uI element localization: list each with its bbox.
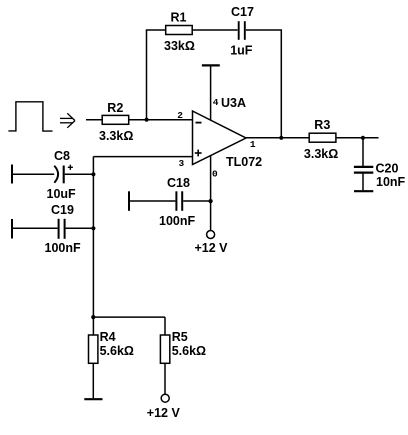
node junction output/feedback [279, 136, 283, 140]
wire C18 to op-amp power column [183, 200, 210, 202]
op-amp minus input marker [196, 122, 202, 124]
svg-text:5.6kΩ: 5.6kΩ [100, 344, 134, 358]
wire feedback right vertical [280, 30, 282, 138]
value 10nF (C20) [376, 175, 406, 189]
wire feedback top to R1 [146, 29, 166, 31]
svg-text:4: 4 [213, 97, 219, 108]
wire R4 to ground [92, 363, 94, 398]
+12V terminal circle (op-amp supply) [207, 231, 215, 239]
node junction at C20 [361, 136, 365, 140]
label C20 [376, 162, 399, 176]
double arrow (signal flow) [60, 113, 75, 128]
wire stub to C18 [129, 200, 175, 202]
plus polarity marker (C8) [68, 165, 73, 170]
label TL072 [226, 155, 262, 169]
resistor R4 [89, 335, 98, 363]
svg-text:R1: R1 [171, 11, 187, 25]
op-amp plus input marker [195, 150, 202, 157]
label U3A [221, 96, 246, 110]
capacitor C8 (polarized) [54, 166, 63, 184]
pin number 1 [250, 139, 256, 150]
wire C17 to feedback right vertical [246, 29, 282, 31]
node junction C18/power column [209, 199, 213, 203]
value 100nF (C18) [159, 214, 195, 228]
wire R2 to op-amp pin 2 [129, 119, 193, 121]
svg-text:2: 2 [177, 110, 183, 121]
capacitor C19 [59, 219, 65, 239]
wire branch down to R5 [164, 317, 166, 335]
value 33kΩ (R1) [164, 39, 195, 53]
wire left column vertical [92, 157, 94, 336]
wire op-amp output [245, 137, 309, 139]
resistor R5 [160, 335, 169, 363]
svg-text:33kΩ: 33kΩ [164, 39, 195, 53]
wire stub to C19 [12, 227, 58, 229]
svg-text:1: 1 [250, 139, 256, 150]
svg-text:+12 V: +12 V [195, 241, 229, 255]
label +12 V (divider) [147, 406, 181, 420]
+12V terminal circle (divider) [161, 394, 169, 402]
wire pin 4 to rail bar [210, 66, 212, 121]
svg-text:3.3kΩ: 3.3kΩ [304, 147, 338, 161]
pin 4 rail bar [202, 64, 220, 66]
pin number 4 [213, 97, 219, 108]
svg-text:10uF: 10uF [47, 187, 77, 201]
label C18 [167, 176, 190, 190]
svg-text:100nF: 100nF [159, 214, 195, 228]
value 100nF (C19) [45, 241, 81, 255]
wire R5 to +12V terminal [164, 363, 166, 394]
svg-text:1uF: 1uF [230, 44, 253, 58]
label +12 V (op-amp supply) [195, 241, 229, 255]
pin number 0 [212, 168, 218, 179]
value 10uF (C8) [47, 187, 77, 201]
resistor R3 [309, 133, 336, 142]
label R3 [314, 118, 330, 132]
terminal stub C18 input [128, 191, 130, 211]
wire op-amp pin to +12V terminal [210, 155, 212, 230]
capacitor C17 [239, 21, 245, 40]
svg-text:C8: C8 [54, 149, 70, 163]
value 5.6kΩ (R5) [172, 344, 206, 358]
value 3.3kΩ (R2) [99, 129, 133, 143]
capacitor C20 [354, 167, 373, 173]
svg-text:C20: C20 [376, 162, 399, 176]
label C19 [51, 203, 74, 217]
terminal stub C8 input [11, 165, 13, 184]
wire feedback left vertical [146, 30, 148, 120]
label R5 [172, 330, 188, 344]
label R2 [107, 101, 123, 115]
wire C19 to column node [66, 227, 94, 229]
ground symbol [84, 398, 102, 400]
svg-text:100nF: 100nF [45, 241, 81, 255]
svg-text:0: 0 [212, 168, 218, 179]
bottom rail bar under C20 [354, 190, 373, 192]
wire input to R2 [86, 119, 102, 121]
label R4 [100, 330, 116, 344]
pin number 2 [177, 110, 183, 121]
label R1 [171, 11, 187, 25]
svg-text:R4: R4 [100, 330, 116, 344]
resistor R2 [102, 115, 129, 124]
svg-text:R5: R5 [172, 330, 188, 344]
input square-wave pulse symbol [8, 102, 52, 131]
svg-text:5.6kΩ: 5.6kΩ [172, 344, 206, 358]
wire pin 3 horizontal [93, 156, 192, 158]
value 5.6kΩ (R4) [100, 344, 134, 358]
svg-text:3: 3 [179, 158, 185, 169]
op-amp U3A triangle [193, 111, 247, 165]
svg-text:+12 V: +12 V [147, 406, 181, 420]
label C17 [231, 5, 254, 19]
resistor R1 [166, 26, 193, 35]
svg-text:C17: C17 [231, 5, 254, 19]
svg-text:C18: C18 [167, 176, 190, 190]
svg-text:U3A: U3A [221, 96, 246, 110]
svg-text:R2: R2 [107, 101, 123, 115]
svg-text:TL072: TL072 [226, 155, 262, 169]
wire C8 to column node [65, 173, 94, 175]
node junction at R2 output / feedback [145, 118, 149, 122]
wire stub to C8 [12, 173, 54, 175]
wire R1 to C17 [192, 29, 238, 31]
value 3.3kΩ (R3) [304, 147, 338, 161]
wire R3 to output node [336, 137, 379, 139]
node junction bias divider [91, 315, 95, 319]
terminal stub C19 input [11, 219, 13, 239]
svg-text:3.3kΩ: 3.3kΩ [99, 129, 133, 143]
wire C20 to bottom rail [362, 174, 364, 191]
value 1uF (C17) [230, 44, 253, 58]
pin number 3 [179, 158, 185, 169]
svg-text:C19: C19 [51, 203, 74, 217]
node junction C8/column [91, 172, 95, 176]
node junction C19/column [91, 226, 95, 230]
wire node to C20 [362, 138, 364, 166]
svg-text:10nF: 10nF [376, 175, 406, 189]
label C8 [54, 149, 70, 163]
capacitor C18 [176, 191, 182, 211]
wire divider branch horizontal [93, 316, 165, 318]
svg-text:R3: R3 [314, 118, 330, 132]
